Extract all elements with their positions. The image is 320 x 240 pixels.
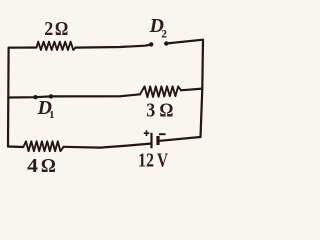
battery V1 negative short plate [156,136,159,145]
node dot D2 right terminal [164,41,168,45]
resistor 3 ohm [140,86,181,97]
svg-text:4: 4 [27,155,38,177]
svg-text:Ω: Ω [159,100,173,121]
wire left edge [7,48,10,147]
wire R3 to battery [64,144,151,148]
svg-text:12: 12 [138,150,154,171]
wire R1 to switch D2 [76,45,152,48]
svg-text:2: 2 [44,19,53,40]
svg-text:1: 1 [49,109,55,121]
resistor 4 ohm [23,141,63,151]
battery minus sign [159,133,166,135]
svg-text:3: 3 [146,100,155,121]
wire bottom-left corner to R3 [8,145,23,148]
battery plus sign [144,130,150,136]
wire top-left to R1 [9,46,37,48]
resistor 2 ohm [37,42,76,50]
svg-text:2: 2 [161,29,167,41]
wire D2 to top-right corner, right edge [166,40,203,137]
svg-text:V: V [157,150,168,171]
wire middle (left to R2) [9,94,140,97]
battery V1 positive long plate [150,133,152,148]
node dot D1 left terminal [33,95,37,99]
node dot D1 right terminal [49,94,53,98]
svg-text:Ω: Ω [55,19,68,40]
wire R2 to right edge [181,89,202,91]
svg-text:Ω: Ω [41,155,56,177]
node dot D2 left terminal [149,42,153,46]
wire battery to bottom-right corner [160,137,201,141]
